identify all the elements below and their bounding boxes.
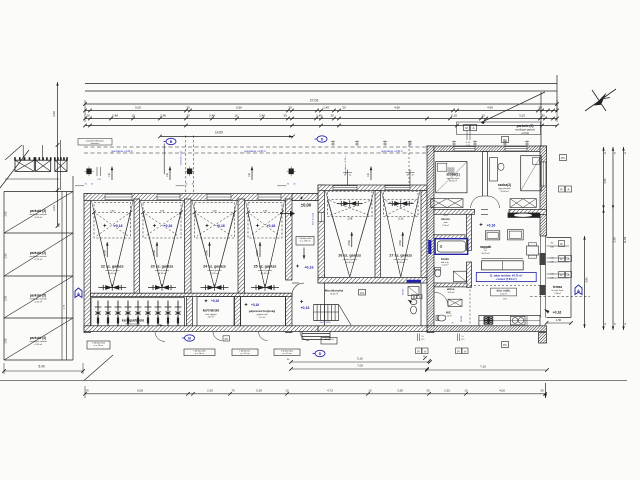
walkway arrow down xyxy=(303,248,305,260)
svg-text:0,5%: 0,5% xyxy=(348,239,351,245)
svg-text:A: A xyxy=(567,273,569,277)
svg-text:2,48: 2,48 xyxy=(160,114,166,118)
M L boxes xyxy=(412,295,417,299)
svg-text:emeleti garázs: emeleti garázs xyxy=(207,269,222,272)
svg-text:2,98: 2,98 xyxy=(347,217,353,221)
svg-text:16,32 m²: 16,32 m² xyxy=(261,272,270,275)
south door arcs xyxy=(213,332,222,341)
svg-text:SD lépcső: SD lépcső xyxy=(324,339,334,341)
svg-text:merőleges parkoló: merőleges parkoló xyxy=(29,255,47,258)
svg-text:merőleges parkoló: merőleges parkoló xyxy=(29,298,47,301)
svg-text:0,5%: 0,5% xyxy=(256,249,259,255)
svg-text:térkő burkolat: térkő burkolat xyxy=(312,213,315,226)
svg-text:20: 20 xyxy=(86,114,90,118)
site boundary line top xyxy=(85,83,557,85)
svg-text:30: 30 xyxy=(344,175,346,177)
left bottom dim 5,40 xyxy=(4,370,83,372)
garage 25 slope arrow xyxy=(259,242,261,257)
svg-text:elősz.: elősz. xyxy=(447,287,456,291)
kerti tarolo room xyxy=(197,297,234,328)
svg-text:30: 30 xyxy=(540,388,544,392)
garage 25 door symbol xyxy=(251,287,279,289)
svg-text:kiss.+rakt.: kiss.+rakt. xyxy=(497,288,511,292)
wall under bedrooms xyxy=(434,209,475,214)
sofa xyxy=(482,261,524,270)
svg-text:16,32 m²: 16,32 m² xyxy=(396,261,405,264)
svg-text:30: 30 xyxy=(426,388,430,392)
svg-text:30: 30 xyxy=(283,114,287,118)
entry level marker xyxy=(300,196,304,200)
svg-text:90/240: 90/240 xyxy=(461,316,463,322)
terrace outline xyxy=(547,237,572,239)
svg-text:0,5%: 0,5% xyxy=(206,249,209,255)
svg-text:nappali: nappali xyxy=(480,245,492,249)
svg-text:5,00: 5,00 xyxy=(135,106,141,110)
svg-text:+0,16: +0,16 xyxy=(216,224,225,228)
svg-text:3,25: 3,25 xyxy=(519,114,525,118)
garage 22 door symbol xyxy=(98,287,126,289)
svg-text:3,50: 3,50 xyxy=(52,111,56,117)
svg-text:m = 16 cm: m = 16 cm xyxy=(195,353,204,355)
svg-text:terasz: terasz xyxy=(553,285,563,289)
svg-text:szek: szek xyxy=(443,222,447,224)
svg-text:10: 10 xyxy=(464,388,468,392)
svg-text:2,10: 2,10 xyxy=(421,339,425,341)
sink xyxy=(511,316,526,325)
svg-text:kerékpártároló h.: kerékpártároló h. xyxy=(125,323,140,326)
svg-text:16,32 m²: 16,32 m² xyxy=(158,272,167,275)
svg-text:M: M xyxy=(413,296,415,299)
svg-text:m = 16 cm: m = 16 cm xyxy=(241,353,250,355)
col1 side ticks xyxy=(96,167,98,176)
svg-text:merőleges parkoló: merőleges parkoló xyxy=(29,213,47,216)
svg-text:10,90 m²: 10,90 m² xyxy=(500,190,509,193)
terrace dashed line xyxy=(530,296,590,298)
svg-text:ágy, párnázta: ágy, párnázta xyxy=(498,187,511,190)
svg-text:2,50: 2,50 xyxy=(5,338,8,343)
svg-text:+2,50 m²: +2,50 m² xyxy=(34,343,43,346)
garage 27 door projection xyxy=(384,192,419,217)
note box parkolok felol xyxy=(78,139,112,146)
furdo toilet xyxy=(435,269,441,277)
svg-text:D: D xyxy=(321,137,324,141)
svg-text:10%: 10% xyxy=(503,299,507,301)
garage 23 door projection xyxy=(143,203,181,239)
svg-text:+2,6,00: +2,6,00 xyxy=(521,132,530,135)
section marker B bottom xyxy=(185,335,195,341)
dimension chain 2 xyxy=(85,118,557,120)
dimension chain 3 xyxy=(85,125,557,127)
bottom chain end arrow xyxy=(545,383,547,398)
svg-text:5,40: 5,40 xyxy=(38,365,44,369)
svg-text:A: A xyxy=(577,288,580,293)
svg-text:0,5%: 0,5% xyxy=(399,239,402,245)
svg-text:2,50: 2,50 xyxy=(5,296,8,301)
svg-text:kerékpártároló: kerékpártároló xyxy=(122,319,144,323)
site line 2 xyxy=(85,90,557,92)
walkway exterior steps xyxy=(302,327,330,329)
svg-text:B: B xyxy=(188,336,191,340)
long ground line xyxy=(0,380,627,382)
parkolo (5) label box xyxy=(457,122,541,135)
bottom note boxes xyxy=(184,349,215,356)
windows in top wall xyxy=(105,194,132,200)
sill tick clusters xyxy=(347,170,349,186)
svg-text:2,48: 2,48 xyxy=(259,114,265,118)
garage 24 slope arrow xyxy=(209,242,211,257)
F5 box bottom xyxy=(223,336,230,341)
walkway level 016 second xyxy=(300,300,304,304)
svg-text:27,03: 27,03 xyxy=(310,99,319,103)
svg-text:telekhatár +0,00: telekhatár +0,00 xyxy=(180,150,183,165)
svg-text:4,00: 4,00 xyxy=(499,388,505,392)
mosokonyha level arrow xyxy=(408,300,412,304)
garage 23 door symbol xyxy=(148,287,176,289)
fence line xyxy=(5,178,59,180)
svg-text:kerti tároló: kerti tároló xyxy=(203,309,220,313)
terrace level arrow xyxy=(544,309,549,314)
section marker B top xyxy=(166,138,176,144)
svg-text:30: 30 xyxy=(349,175,351,177)
svg-text:A: A xyxy=(77,291,80,296)
svg-text:1,40: 1,40 xyxy=(323,106,329,110)
szoba1 wardrobe xyxy=(431,199,463,208)
walkway note box xyxy=(296,237,314,246)
svg-text:18,70 m²: 18,70 m² xyxy=(481,252,490,255)
svg-text:7,00: 7,00 xyxy=(357,364,363,368)
garage 25 level label xyxy=(256,224,260,228)
svg-text:parkolók felől kijárat: parkolók felől kijárat xyxy=(86,139,104,142)
svg-text:fürdő: fürdő xyxy=(441,257,449,261)
svg-text:+0,16: +0,16 xyxy=(164,224,173,228)
svg-text:5,10: 5,10 xyxy=(357,357,363,361)
svg-text:merőleges parkoló: merőleges parkoló xyxy=(29,340,47,343)
garage 23 swing lines xyxy=(143,213,162,288)
svg-text:biztosítva: biztosítva xyxy=(91,142,100,145)
svg-text:30: 30 xyxy=(85,184,87,186)
svg-text:14,50: 14,50 xyxy=(215,131,223,135)
dining table xyxy=(527,246,539,255)
svg-text:10: 10 xyxy=(462,336,464,338)
dimension 14,50 xyxy=(160,135,293,137)
1% slope arrows xyxy=(111,167,113,181)
svg-text:11,83: 11,83 xyxy=(623,236,627,243)
apartment right wall xyxy=(540,146,547,236)
svg-text:parkoló (5): parkoló (5) xyxy=(30,294,46,298)
svg-text:P1: P1 xyxy=(561,156,565,160)
left wall blue door bar xyxy=(428,240,431,254)
garage 25 door projection xyxy=(248,203,282,239)
mosokonyha fixtures xyxy=(408,287,419,296)
svg-text:emeleti garázs: emeleti garázs xyxy=(155,269,170,272)
overall dimension line 27,03 xyxy=(85,103,557,105)
right window band xyxy=(540,236,542,318)
svg-text:3,30 m²: 3,30 m² xyxy=(448,291,455,294)
svg-text:10: 10 xyxy=(422,336,424,338)
svg-text:10: 10 xyxy=(131,114,135,118)
furdo wall xyxy=(434,283,467,287)
right vertical dim lines xyxy=(603,147,605,330)
svg-text:30: 30 xyxy=(412,175,414,177)
svg-text:70: 70 xyxy=(85,388,89,392)
svg-text:ágy, párnázta: ágy, párnázta xyxy=(447,177,460,180)
svg-text:emeleti garázs: emeleti garázs xyxy=(105,269,120,272)
chain end verticals xyxy=(84,100,86,122)
garage 22 swing lines xyxy=(94,213,112,288)
blue door bar xyxy=(407,280,422,283)
site boundary diagonals xyxy=(0,150,29,188)
svg-text:gerenda au. +2,20 m: gerenda au. +2,20 m xyxy=(111,150,132,153)
garage 24 level label xyxy=(205,224,209,228)
leader line to parkolo 5 label xyxy=(481,92,545,123)
svg-text:parkoló (3): parkoló (3) xyxy=(30,209,46,213)
svg-text:D: D xyxy=(319,352,322,356)
szoba2 desk xyxy=(490,158,498,181)
bike store walls xyxy=(187,297,193,327)
garage 22 door projection xyxy=(94,203,131,239)
svg-text:30: 30 xyxy=(541,114,545,118)
right wall window xyxy=(541,162,546,186)
forecourt columns xyxy=(86,169,91,175)
svg-text:16,20 m²: 16,20 m² xyxy=(330,293,338,296)
garage 25 swing lines xyxy=(248,213,265,288)
section marker D top xyxy=(317,136,327,142)
north arrow xyxy=(585,89,616,111)
bottom dimension chain xyxy=(85,393,547,395)
P1 box top xyxy=(502,137,509,143)
bottom wall left blocks xyxy=(84,326,318,332)
svg-text:20: 20 xyxy=(342,106,346,110)
bathtub xyxy=(435,239,468,255)
svg-text:2,10: 2,10 xyxy=(461,339,465,341)
door tick pairs bottom xyxy=(416,334,418,342)
garage 27 swing lines xyxy=(384,200,401,277)
svg-text:tároló: tároló xyxy=(441,217,450,221)
svg-text:30: 30 xyxy=(538,106,542,110)
garage 23 slope arrow xyxy=(156,242,158,257)
svg-text:5,27 m²: 5,27 m² xyxy=(259,316,266,319)
bike store room xyxy=(91,298,185,328)
tarolo wall xyxy=(434,235,465,239)
svg-text:A: A xyxy=(424,349,426,353)
svg-text:30: 30 xyxy=(91,184,93,186)
svg-text:16×17,6/28: 16×17,6/28 xyxy=(319,321,331,324)
right top vertical line xyxy=(540,92,542,147)
svg-text:+0,16: +0,16 xyxy=(487,223,496,227)
level nappali xyxy=(479,223,483,227)
svg-text:R: R xyxy=(417,349,419,353)
lower band dividing wall xyxy=(91,293,293,296)
svg-text:+0,16: +0,16 xyxy=(211,299,219,303)
garage 24 door projection xyxy=(195,203,235,239)
SE corner wall stub xyxy=(539,333,547,344)
svg-text:szoba(1): szoba(1) xyxy=(446,173,459,177)
M A boxes xyxy=(464,125,470,131)
svg-text:30: 30 xyxy=(288,106,292,110)
svg-text:gerenda au. +2,20 m: gerenda au. +2,20 m xyxy=(381,150,402,153)
dim 5,10 7,00 xyxy=(291,361,430,363)
garage 26 swing lines xyxy=(328,200,350,277)
svg-text:0,5%: 0,5% xyxy=(153,249,156,255)
top wall left block xyxy=(84,194,318,201)
terrace dim 1,50 xyxy=(547,322,572,324)
svg-text:2,35: 2,35 xyxy=(444,388,450,392)
walkway door arc xyxy=(292,282,299,284)
terrace sill lines xyxy=(547,245,570,247)
kisrakt label xyxy=(491,288,517,296)
F3 box xyxy=(359,290,366,296)
gerenda dashed line xyxy=(84,146,427,148)
svg-text:1,48: 1,48 xyxy=(316,114,322,118)
walkway level 016 xyxy=(296,264,300,268)
svg-text:4,90: 4,90 xyxy=(394,106,400,110)
svg-text:m = 16 cm: m = 16 cm xyxy=(283,353,292,355)
parking stall diagonals xyxy=(4,192,73,234)
parking double vertical xyxy=(61,192,63,361)
svg-text:+2,50 m²: +2,50 m² xyxy=(34,301,43,304)
apartment top windows xyxy=(454,147,475,151)
D oval bottom xyxy=(315,350,325,356)
szoba2 wardrobe xyxy=(510,199,536,208)
svg-text:30: 30 xyxy=(192,184,194,186)
garage 26 slope arrow xyxy=(351,232,353,247)
terrace vertical dim xyxy=(584,236,586,328)
svg-text:±0,00: ±0,00 xyxy=(301,203,312,208)
bedroom door arcs xyxy=(471,196,483,208)
svg-text:2,05 m²: 2,05 m² xyxy=(500,293,507,296)
svg-text:24 sz. garázs: 24 sz. garázs xyxy=(203,265,226,269)
svg-text:m = 16 cm: m = 16 cm xyxy=(94,345,104,347)
entry arrow xyxy=(280,213,290,215)
fence crossed boxes xyxy=(15,160,34,171)
bike store level xyxy=(159,324,163,328)
svg-text:5,10: 5,10 xyxy=(398,217,404,221)
svg-text:emeleti garázs: emeleti garázs xyxy=(394,258,409,261)
svg-text:Mosókonyha: Mosókonyha xyxy=(325,289,344,293)
svg-text:10: 10 xyxy=(368,388,372,392)
svg-text:5,38: 5,38 xyxy=(612,237,616,243)
area blue box xyxy=(476,273,536,282)
svg-text:gépész háló: gépész háló xyxy=(257,314,269,316)
svg-text:20: 20 xyxy=(330,114,334,118)
svg-text:10,50 m²: 10,50 m² xyxy=(449,180,458,183)
svg-text:10: 10 xyxy=(481,114,485,118)
svg-text:+0,16: +0,16 xyxy=(304,266,313,270)
left block garage floor line xyxy=(91,292,293,294)
svg-text:30: 30 xyxy=(287,184,289,186)
parking stall rows xyxy=(4,191,73,193)
expansion joint dashes xyxy=(185,136,187,200)
svg-text:szoba(2): szoba(2) xyxy=(498,183,511,187)
svg-text:30: 30 xyxy=(185,184,187,186)
svg-text:16,32 m²: 16,32 m² xyxy=(345,261,354,264)
svg-text:parkoló (4): parkoló (4) xyxy=(30,336,46,340)
svg-text:26 sz. garázs: 26 sz. garázs xyxy=(338,254,361,258)
svg-text:10: 10 xyxy=(285,388,289,392)
svg-text:27 sz. garázs: 27 sz. garázs xyxy=(389,254,412,258)
mid garage divider xyxy=(375,191,381,279)
mid block garage floor wall xyxy=(318,278,427,284)
svg-text:A: A xyxy=(464,349,466,353)
svg-text:+0,16: +0,16 xyxy=(553,311,562,315)
svg-text:5,10: 5,10 xyxy=(451,114,457,118)
window dim ticks xyxy=(453,141,455,147)
left outer wall xyxy=(84,194,91,333)
garage divider walls xyxy=(134,199,140,295)
svg-text:+0,16: +0,16 xyxy=(114,224,123,228)
elosz cabinet xyxy=(448,299,462,306)
right wall of left block xyxy=(286,199,293,280)
small ticks bottom xyxy=(423,356,427,360)
svg-text:P1: P1 xyxy=(503,343,507,347)
shower square xyxy=(453,271,466,281)
svg-text:3,28: 3,28 xyxy=(397,388,403,392)
svg-text:7,84 m²: 7,84 m² xyxy=(554,292,561,295)
mid block top wall xyxy=(318,185,427,191)
svg-text:R: R xyxy=(457,349,459,353)
svg-text:11. lakás területe: 64,75 m²: 11. lakás területe: 64,75 m² xyxy=(490,273,523,277)
svg-text:gerenda au. +2,20 m: gerenda au. +2,20 m xyxy=(244,150,265,153)
svg-text:30: 30 xyxy=(407,175,409,177)
RA boxes bottom xyxy=(416,348,422,354)
svg-text:parkoló (5): parkoló (5) xyxy=(517,124,534,128)
svg-text:+0,16: +0,16 xyxy=(251,303,259,307)
mosokonyha room xyxy=(325,283,422,327)
svg-text:kád, zuh.: kád, zuh. xyxy=(441,262,450,264)
svg-text:3,35: 3,35 xyxy=(603,178,607,184)
svg-text:A: A xyxy=(567,257,569,261)
svg-text:+2,50 m²: +2,50 m² xyxy=(34,216,43,219)
svg-text:2,15 m²: 2,15 m² xyxy=(442,224,449,227)
szoba2 bed xyxy=(521,156,542,191)
left vertical dimension xyxy=(57,82,59,226)
svg-text:10: 10 xyxy=(234,114,238,118)
steps note box left xyxy=(87,341,110,349)
apartment top wall xyxy=(427,146,547,152)
svg-text:+ terasz (7,84 m²): + terasz (7,84 m²) xyxy=(495,277,516,281)
svg-text:23 sz. garázs: 23 sz. garázs xyxy=(151,265,174,269)
P1 box right xyxy=(560,155,567,161)
south facade leader xyxy=(84,355,113,381)
svg-text:1,50 m²: 1,50 m² xyxy=(445,314,452,317)
garage 22 level label xyxy=(103,224,107,228)
apartment left wall xyxy=(427,146,434,333)
garage 22 slope arrow xyxy=(106,242,108,257)
mid block left wall xyxy=(318,185,325,283)
svg-text:4,80: 4,80 xyxy=(585,277,589,283)
svg-text:22 sz. garázs: 22 sz. garázs xyxy=(101,265,124,269)
svg-text:0,5%: 0,5% xyxy=(103,249,106,255)
elosz door arc xyxy=(434,292,448,306)
section line B xyxy=(163,144,165,175)
svg-text:25 sz. garázs: 25 sz. garázs xyxy=(254,265,277,269)
bike symbols xyxy=(97,301,99,327)
svg-text:4,90: 4,90 xyxy=(487,106,493,110)
svg-text:70: 70 xyxy=(231,388,235,392)
armchairs xyxy=(485,231,499,240)
svg-text:1,50: 1,50 xyxy=(556,318,562,322)
svg-text:emeleti garázs: emeleti garázs xyxy=(258,269,273,272)
svg-text:2,50: 2,50 xyxy=(5,253,8,258)
svg-text:7,16: 7,16 xyxy=(480,365,486,369)
bedroom divider wall xyxy=(482,152,484,197)
section A shield left xyxy=(75,288,82,298)
steps note box xyxy=(321,338,337,345)
P1 box bottom xyxy=(502,342,509,348)
garage 26 door symbol xyxy=(337,203,363,205)
tv sideboard xyxy=(508,213,540,218)
terrace A shield xyxy=(575,285,582,295)
